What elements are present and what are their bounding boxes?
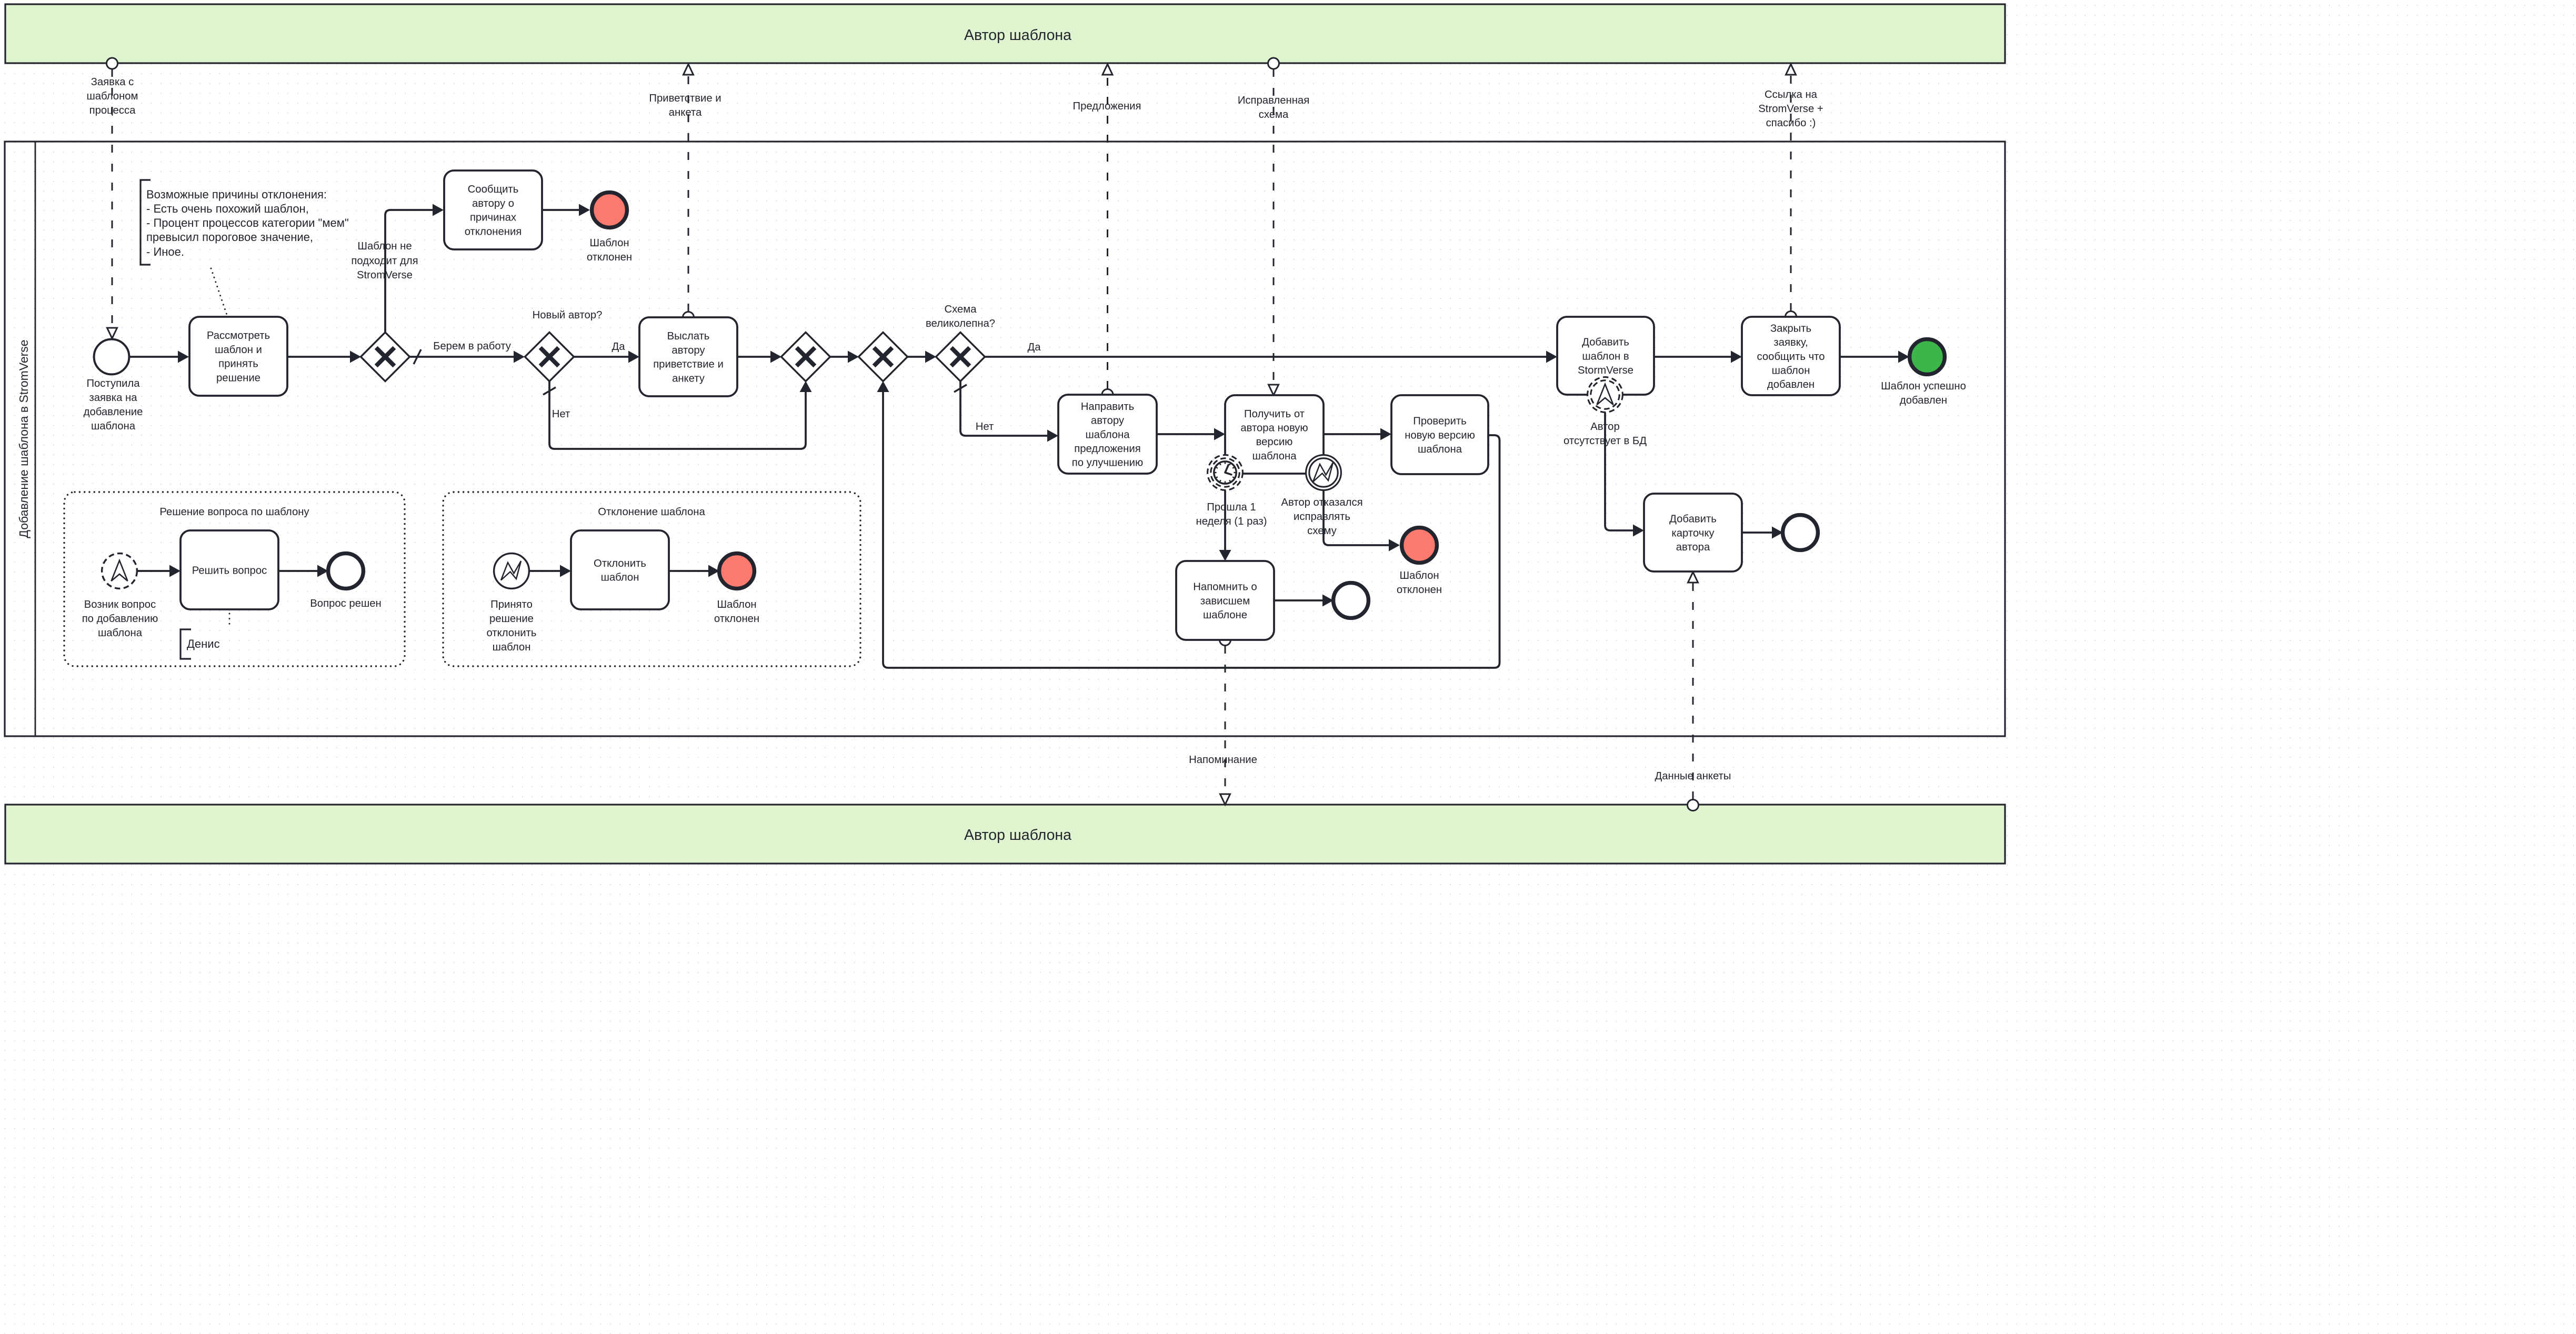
sequence flow: Получить -> Проверить	[1324, 428, 1391, 440]
svg-text:Заявка сшаблономпроцесса: Заявка сшаблономпроцесса	[86, 76, 138, 116]
text annotation: Возможные причины отклонения	[141, 180, 349, 265]
message flow source circle (Заявка)	[107, 58, 118, 69]
start event: Поступила заявка на добавление шаблона	[94, 339, 129, 375]
message flow source circle (Исправленная схема)	[1268, 58, 1279, 69]
sequence flow: Добавить шаблон -> Закрыть заявку	[1654, 351, 1742, 363]
task: Напомнить о зависшем шаблоне	[1176, 561, 1274, 640]
task: Добавить шаблон в StormVerse	[1557, 317, 1654, 395]
sequence flow: Выслать -> gateway 3	[737, 351, 781, 363]
task: Направить автору шаблона предложения по улучшению	[1058, 395, 1157, 474]
text annotation: Денис	[181, 629, 220, 659]
sequence flow: gateway 1 -> Сообщить (Шаблон не подходит)	[385, 204, 444, 333]
task: Отклонить шаблон	[571, 530, 669, 609]
sequence flow: Возник вопрос -> Решить вопрос	[137, 565, 181, 577]
task: Выслать автору приветствие и анкету	[639, 317, 737, 396]
svg-text:Автор шаблона: Автор шаблона	[964, 27, 1071, 44]
sequence flow: timer -> Напомнить	[1219, 490, 1231, 561]
gateway 3 (XOR merge)	[781, 333, 830, 382]
message flow: Предложения	[1102, 64, 1112, 389]
svg-text:Новый автор?: Новый автор?	[533, 309, 603, 321]
message flow source circle (Ссылка)	[1786, 312, 1797, 323]
svg-text:Отклонение шаблона: Отклонение шаблона	[598, 506, 705, 518]
gateway 2 (XOR, Новый автор?)	[525, 333, 574, 382]
task: Сообщить автору о причинах отклонения	[444, 170, 542, 249]
svg-text:Решить вопрос: Решить вопрос	[192, 565, 267, 576]
end event: Шаблон отклонен (1)	[592, 193, 627, 228]
end event: Шаблон успешно добавлен (green)	[1910, 339, 1945, 375]
sequence flow: Напомнить -> end	[1274, 595, 1334, 607]
sequence flow: Отклонить шаблон -> Шаблон отклонен (3)	[669, 565, 719, 577]
boundary event: error (Автор отказался исправлять схему)	[1306, 455, 1341, 490]
svg-text:Берем в работу: Берем в работу	[433, 340, 512, 352]
svg-text:Данные анкеты: Данные анкеты	[1655, 770, 1731, 782]
sequence flow: Закрыть заявку -> Шаблон успешно добавлен	[1840, 351, 1909, 363]
task: Закрыть заявку, сообщить что шаблон добавлен	[1742, 317, 1840, 395]
message flow: Ссылка на StromVerse + спасибо	[1786, 64, 1796, 311]
event sub-process: Решение вопроса по шаблону	[64, 492, 405, 666]
message flow: Приветствие и анкета	[684, 64, 694, 312]
sequence flow: gateway 5 -> Направить (Нет, default)	[954, 381, 1058, 442]
pool: Автор шаблона (top)	[5, 4, 2005, 63]
event sub-process: Отклонение шаблона	[443, 492, 860, 666]
sequence flow: escalation boundary -> Добавить карточку	[1605, 413, 1644, 537]
message flow source circle (Данные анкеты)	[1688, 800, 1699, 811]
svg-text:Вопрос решен: Вопрос решен	[310, 598, 381, 609]
sequence flow: gateway 2 -> gateway 3 (Нет)	[543, 381, 812, 449]
message flow source circle (Приветствие)	[683, 312, 694, 323]
boundary event: timer non-interrupting (Прошла 1 неделя)	[1208, 455, 1243, 490]
task: Проверить новую версию шаблона	[1391, 395, 1488, 474]
pool: Добавление шаблона в StromVerse (main)	[5, 142, 2005, 736]
sequence flow: gateway 1 -> gateway 2 (Берем в работу, default)	[409, 349, 525, 364]
message flow source circle (Предложения)	[1102, 389, 1113, 400]
message flow: Исправленная схема	[1269, 69, 1279, 395]
svg-text:Добавитькарточкуавтора: Добавитькарточкуавтора	[1669, 514, 1717, 553]
message flow: Заявка с шаблоном процесса	[107, 69, 117, 338]
sequence flow: Рассмотреть -> gateway 1	[287, 351, 361, 363]
sequence flow: Направить -> Получить	[1157, 428, 1225, 440]
svg-text:Предложения: Предложения	[1073, 101, 1141, 112]
svg-text:Ссылка наStromVerse +спасибо :: Ссылка наStromVerse +спасибо :)	[1758, 89, 1823, 129]
sequence flow: Принято решение -> Отклонить шаблон	[529, 565, 571, 577]
start event: Возник вопрос по добавлению шаблона (escalation, non-interrupting)	[102, 554, 137, 589]
sequence flow: Сообщить -> Шаблон отклонен	[542, 204, 590, 216]
pool: Автор шаблона (bottom)	[5, 805, 2005, 864]
sequence flow: gateway 5 -> Добавить шаблон (Да)	[985, 351, 1557, 363]
sequence flow: Проверить -> gateway 4 (loop back)	[877, 381, 1500, 668]
svg-text:Автор шаблона: Автор шаблона	[964, 827, 1071, 844]
sequence flow: start -> Рассмотреть	[129, 351, 189, 363]
svg-text:Денис: Денис	[187, 637, 220, 650]
svg-text:Нет: Нет	[976, 421, 994, 433]
start event: Принято решение отклонить шаблон (error)	[494, 554, 529, 589]
svg-text:Да: Да	[612, 341, 625, 353]
boundary event: escalation non-interrupting (Автор отсутствует в БД)	[1588, 377, 1623, 413]
svg-text:Добавление шаблона в StromVers: Добавление шаблона в StromVerse	[17, 339, 31, 538]
sequence flow: gateway 2 -> Выслать (Да)	[574, 351, 639, 363]
svg-text:Решение вопроса по шаблону: Решение вопроса по шаблону	[159, 506, 309, 518]
association: Решить вопрос -> Денис (dotted)	[229, 614, 230, 625]
message flow: Напоминание	[1220, 646, 1230, 805]
gateway 1 (XOR)	[361, 333, 410, 382]
sequence flow: Решить вопрос -> Вопрос решен	[278, 565, 328, 577]
gateway 4 (XOR merge)	[859, 333, 908, 382]
svg-text:Добавитьшаблон вStormVerse: Добавитьшаблон вStormVerse	[1578, 337, 1633, 376]
message flow: Данные анкеты	[1688, 572, 1698, 799]
end event after Напомнить	[1334, 583, 1369, 618]
svg-text:Напоминание: Напоминание	[1189, 754, 1257, 766]
end event: Шаблон отклонен (2)	[1402, 528, 1437, 563]
sequence flow: Добавить карточку -> end	[1742, 527, 1783, 539]
task: Получить от автора новую версию шаблона	[1225, 395, 1324, 474]
sequence flow: gateway 4 -> gateway 5	[907, 351, 936, 363]
message flow source circle (Напоминание)	[1220, 635, 1231, 646]
end event: Вопрос решен	[328, 554, 364, 589]
task: Решить вопрос	[181, 530, 278, 609]
task: Рассмотреть шаблон и принять решение	[189, 317, 287, 396]
association: annotation -> Рассмотреть (dotted)	[211, 268, 227, 316]
task: Добавить карточку автора	[1644, 494, 1742, 571]
sequence flow: gateway 3 -> gateway 4	[830, 351, 859, 363]
svg-text:Да: Да	[1027, 342, 1041, 353]
end event: Шаблон отклонен (3)	[719, 554, 755, 589]
svg-text:Нет: Нет	[552, 408, 570, 420]
sequence flow: error boundary -> Шаблон отклонен (2)	[1324, 490, 1400, 551]
end event after Добавить карточку	[1783, 515, 1818, 550]
svg-text:Шаблон неподходит дляStromVers: Шаблон неподходит дляStromVerse	[351, 240, 418, 281]
gateway 5 (XOR, Схема великолепна?)	[936, 333, 985, 382]
